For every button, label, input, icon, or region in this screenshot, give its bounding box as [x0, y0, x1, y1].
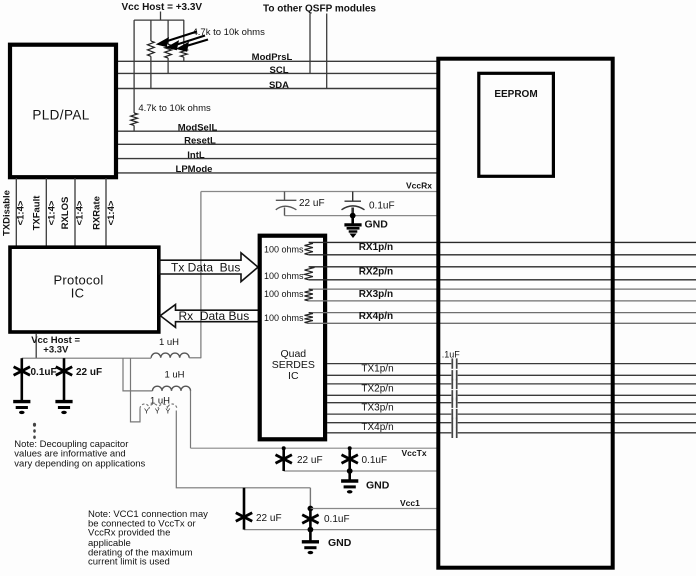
wire ResetL — [116, 143, 438, 145]
svg-text:+3.3V: +3.3V — [43, 345, 69, 356]
wire SCL — [116, 72, 438, 74]
wire pull-up branch to ModSelL resistor — [133, 20, 135, 113]
capacitor 0.1uF (Vcc1) — [309, 509, 312, 530]
wire TX3n line — [327, 413, 451, 415]
bus arrow Rx Data Bus — [160, 305, 258, 328]
ground GND (Vcc1 filter) — [309, 530, 312, 541]
node Vcc1 cap ground junction — [308, 527, 314, 533]
resistor pull-up SCL 4.7k-10k — [165, 44, 172, 58]
note VCC1 connection — [88, 509, 208, 568]
wire VccTx rail — [191, 447, 439, 449]
resistor 100 ohms termination RX4 — [305, 313, 313, 324]
inductor L2 1 uH (VccTx feed) — [153, 386, 191, 391]
inductor L3 1 uH (Vcc1 feed, optional dashed) — [140, 404, 177, 409]
capacitor 22 uF (VccTx) — [282, 448, 285, 471]
svg-text:IC: IC — [288, 370, 299, 382]
svg-text:Tx Data Bus: Tx Data Bus — [171, 260, 240, 274]
svg-text:TX3p/n: TX3p/n — [361, 402, 393, 413]
wire Vcc stub from label to pull-up bar — [160, 12, 162, 21]
svg-text:ModSelL: ModSelL — [178, 122, 218, 133]
svg-text:SDA: SDA — [269, 80, 289, 91]
wire L3 output drop to Vcc1 rail — [176, 411, 310, 488]
wire host 3.3V rail — [22, 357, 151, 359]
wire RX3n line — [309, 300, 696, 302]
resistor 100 ohms termination RX2 — [305, 267, 313, 280]
svg-text:VccRx: VccRx — [406, 181, 432, 191]
wire VccTx ground return rail — [284, 470, 438, 472]
capacitor .1uF coupling (TX4p) — [451, 418, 453, 428]
wire RX1n line — [309, 254, 696, 256]
svg-text:0.1uF: 0.1uF — [324, 514, 350, 525]
IC Protocol IC — [10, 247, 159, 332]
wire ModSelL — [116, 130, 438, 132]
IC PLD/PAL — [10, 45, 116, 178]
svg-text:TX1p/n: TX1p/n — [361, 364, 393, 375]
wire SDA — [116, 88, 438, 90]
svg-text:TX4p/n: TX4p/n — [361, 422, 393, 433]
svg-text:22 uF: 22 uF — [76, 367, 102, 378]
wire ModPrsL — [116, 60, 438, 62]
capacitor .1uF coupling (TX2n) — [451, 390, 453, 400]
dashed coil marks Y Y Y (L3) — [144, 407, 170, 416]
node VccTx cap ground junction — [347, 468, 353, 474]
capacitor 0.1uF (VccRx) — [342, 192, 365, 216]
capacitor .1uF coupling (TX2p) — [451, 379, 453, 389]
wire Protocol IC power stub — [35, 334, 37, 358]
svg-text:Rx Data Bus: Rx Data Bus — [179, 309, 250, 323]
resistor pull-up ModSelL 4.7k-10k — [131, 113, 138, 125]
node Vcc1 tap junction — [309, 488, 311, 509]
QSFP module block — [438, 59, 612, 568]
svg-text:22 uF: 22 uF — [299, 198, 325, 209]
wire pull-up branch to SCL resistor — [167, 20, 169, 44]
capacitor .1uF coupling (TX1p) — [451, 358, 453, 368]
wire branch to L3 — [131, 358, 141, 422]
svg-text:GND: GND — [365, 219, 389, 231]
node VccRx cap ground junction — [350, 213, 356, 219]
capacitor .1uF coupling (TX3p) — [451, 398, 453, 408]
wire TXFault bus — [45, 178, 47, 246]
dotted continuation marks — [33, 423, 36, 439]
svg-text:4.7k to 10k ohms: 4.7k to 10k ohms — [138, 103, 211, 114]
svg-text:current limit is used: current limit is used — [88, 557, 170, 568]
wire RX4n line — [309, 322, 696, 324]
wire pull-up branch to SDA resistor — [150, 20, 152, 41]
ground (host 0.1uF) — [13, 400, 30, 403]
svg-text:Y: Y — [165, 407, 170, 416]
svg-text:ModPrsL: ModPrsL — [252, 52, 293, 63]
svg-text:EEPROM: EEPROM — [494, 89, 537, 100]
svg-text:IntL: IntL — [187, 150, 205, 161]
annotation arrows to pull-up resistors — [159, 32, 209, 51]
inductor L1 1 uH (VccRx feed) — [151, 353, 189, 358]
svg-text:Y: Y — [144, 407, 149, 416]
wire L1 output to VccRx riser — [189, 357, 201, 359]
svg-text:IC: IC — [71, 285, 85, 300]
svg-text:1 uH: 1 uH — [159, 337, 179, 348]
svg-text:0.1uF: 0.1uF — [369, 201, 395, 212]
svg-text:To other QSFP modules: To other QSFP modules — [263, 4, 376, 15]
wire TX2p line — [327, 383, 451, 385]
svg-text:RX3p/n: RX3p/n — [359, 289, 393, 300]
svg-text:100 ohms: 100 ohms — [264, 313, 304, 323]
ground (host 22 uF) — [55, 400, 72, 403]
svg-text:RX1p/n: RX1p/n — [359, 242, 393, 253]
svg-text:<1:4>: <1:4> — [15, 200, 26, 225]
node VccTx 0.1uF junction — [348, 446, 352, 450]
svg-text:LPMode: LPMode — [176, 164, 213, 175]
svg-text:22 uF: 22 uF — [297, 455, 323, 466]
svg-text:vary depending on applications: vary depending on applications — [14, 458, 145, 469]
svg-text:TXDisable: TXDisable — [2, 190, 13, 236]
svg-text:RXLOS: RXLOS — [60, 197, 71, 230]
capacitor .1uF coupling (TX3n) — [451, 409, 453, 419]
wire SCL to other QSFP modules — [309, 14, 311, 74]
wire TX3p line — [327, 402, 451, 404]
wire branch to L2 — [123, 358, 153, 391]
svg-text:TX2p/n: TX2p/n — [361, 384, 393, 395]
wire pull-up supply bar — [134, 19, 184, 21]
capacitor 22 uF (Vcc1) — [243, 488, 246, 530]
capacitor 22 uF (host) — [63, 358, 66, 401]
svg-text:<1:4>: <1:4> — [47, 200, 58, 225]
wire VccRx ground return rail — [285, 215, 439, 217]
svg-text:<1:4>: <1:4> — [75, 200, 86, 225]
capacitor .1uF coupling (TX4n) — [451, 428, 453, 438]
wire RX2n line — [309, 279, 696, 281]
wire L2 output drop to VccTx rail — [190, 391, 192, 448]
svg-text:VccTx: VccTx — [402, 448, 427, 458]
IC Quad SERDES — [260, 236, 325, 440]
svg-text:Vcc Host = +3.3V: Vcc Host = +3.3V — [122, 2, 203, 13]
svg-text:Y: Y — [155, 407, 160, 416]
svg-text:Vcc1: Vcc1 — [400, 498, 420, 508]
ground GND (VccRx filter) — [344, 216, 361, 238]
wire TX4p line — [327, 422, 451, 424]
svg-text:PLD/PAL: PLD/PAL — [32, 108, 89, 123]
svg-text:TXFault: TXFault — [32, 195, 43, 231]
wire Vcc1 ground return rail — [244, 529, 438, 531]
capacitor 0.1uF (VccTx) — [348, 448, 351, 471]
svg-text:RXRate: RXRate — [92, 196, 103, 230]
resistor pull-up SDA 4.7k-10k — [148, 41, 155, 56]
wire RX4p line — [309, 312, 696, 314]
svg-text:SCL: SCL — [270, 65, 289, 76]
wire RX2p line — [309, 266, 696, 268]
svg-text:GND: GND — [366, 480, 390, 492]
wire TX1n line — [327, 374, 451, 376]
svg-text:GND: GND — [328, 537, 352, 549]
bus arrow Tx Data Bus — [160, 253, 259, 282]
svg-text:100 ohms: 100 ohms — [264, 289, 304, 299]
wire pull-up branch to ModPrsL resistor — [183, 20, 185, 45]
svg-text:<1:4>: <1:4> — [106, 200, 117, 225]
wire TX4n line — [327, 432, 451, 434]
svg-text:100 ohms: 100 ohms — [264, 271, 304, 281]
svg-text:0.1uF: 0.1uF — [362, 455, 388, 466]
capacitor .1uF coupling (TX1n) — [451, 370, 453, 380]
note decoupling capacitors — [14, 439, 145, 469]
capacitor 22 uF (VccRx) — [276, 192, 297, 216]
svg-text:1 uH: 1 uH — [164, 370, 184, 381]
resistor pull-up ModPrsL 4.7k-10k — [180, 45, 187, 57]
svg-text:ResetL: ResetL — [184, 136, 216, 147]
wire TX2n line — [327, 394, 451, 396]
svg-text:22 uF: 22 uF — [256, 513, 282, 524]
svg-text:RX4p/n: RX4p/n — [359, 311, 393, 322]
wire IntL — [116, 158, 438, 160]
capacitor 0.1uF (host) — [20, 358, 23, 401]
wire RXRate bus — [105, 178, 107, 246]
wire SDA to other QSFP modules — [326, 14, 328, 89]
ground GND (VccTx filter) — [348, 471, 351, 480]
wire RX3p line — [309, 288, 696, 290]
svg-text:.1uF: .1uF — [442, 349, 461, 359]
svg-text:RX2p/n: RX2p/n — [359, 267, 393, 278]
wire RX1p line — [309, 241, 696, 243]
svg-text:VccRx provided the: VccRx provided the — [88, 528, 170, 539]
wire LPMode — [116, 172, 438, 174]
node VccTx 22uF junction — [282, 446, 286, 450]
wire RXLOS bus — [74, 178, 76, 246]
wire Vcc1 rail — [310, 508, 438, 510]
resistor 100 ohms termination RX3 — [305, 289, 313, 301]
svg-text:100 ohms: 100 ohms — [264, 244, 304, 254]
svg-text:1 uH: 1 uH — [150, 396, 170, 407]
wire TX1p line — [327, 363, 451, 365]
wire VccRx feed riser — [200, 192, 202, 359]
wire TXDisable bus — [15, 178, 17, 246]
resistor 100 ohms termination RX1 — [305, 242, 313, 254]
wire VccRx rail — [201, 191, 438, 193]
svg-text:0.1uF: 0.1uF — [31, 367, 57, 378]
IC EEPROM — [479, 73, 554, 176]
